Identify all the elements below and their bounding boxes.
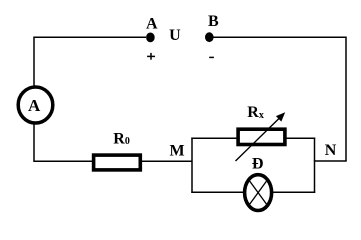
wire: ammeter to bottom-left corner to R0 bbox=[34, 124, 93, 162]
wire: terminal A to top-left corner and down to ammeter bbox=[34, 37, 146, 86]
svg-text:N: N bbox=[325, 142, 337, 159]
wire: terminal B to top-right corner, down to node N bbox=[214, 37, 347, 161]
svg-text:A: A bbox=[146, 15, 158, 32]
wire: top branch left bbox=[191, 137, 238, 139]
terminal B (dot) bbox=[205, 32, 214, 42]
ammeter A1 bbox=[18, 87, 53, 123]
svg-text:R0: R0 bbox=[113, 130, 130, 147]
wire: top branch right bbox=[285, 137, 315, 139]
wire: bottom branch left bbox=[191, 191, 244, 193]
resistor R0 bbox=[94, 130, 141, 170]
wire: bottom branch right bbox=[272, 191, 315, 193]
resistor Rx (variable, with arrow) bbox=[236, 104, 286, 161]
svg-text:Đ: Đ bbox=[252, 156, 264, 173]
wire: parallel section right vertical bbox=[314, 138, 316, 194]
svg-text:Rx: Rx bbox=[247, 104, 264, 121]
svg-text:A: A bbox=[28, 96, 41, 115]
svg-text:M: M bbox=[169, 142, 184, 159]
svg-text:U: U bbox=[169, 27, 181, 44]
label + bbox=[147, 53, 155, 60]
label - bbox=[209, 56, 214, 58]
lamp Đ bbox=[245, 156, 272, 211]
terminal A (dot) bbox=[146, 33, 155, 43]
svg-text:B: B bbox=[208, 13, 219, 30]
wire: parallel section left vertical bbox=[191, 138, 193, 194]
wire: node N connector bbox=[314, 160, 347, 162]
wire: R0 to node M bbox=[142, 160, 193, 162]
